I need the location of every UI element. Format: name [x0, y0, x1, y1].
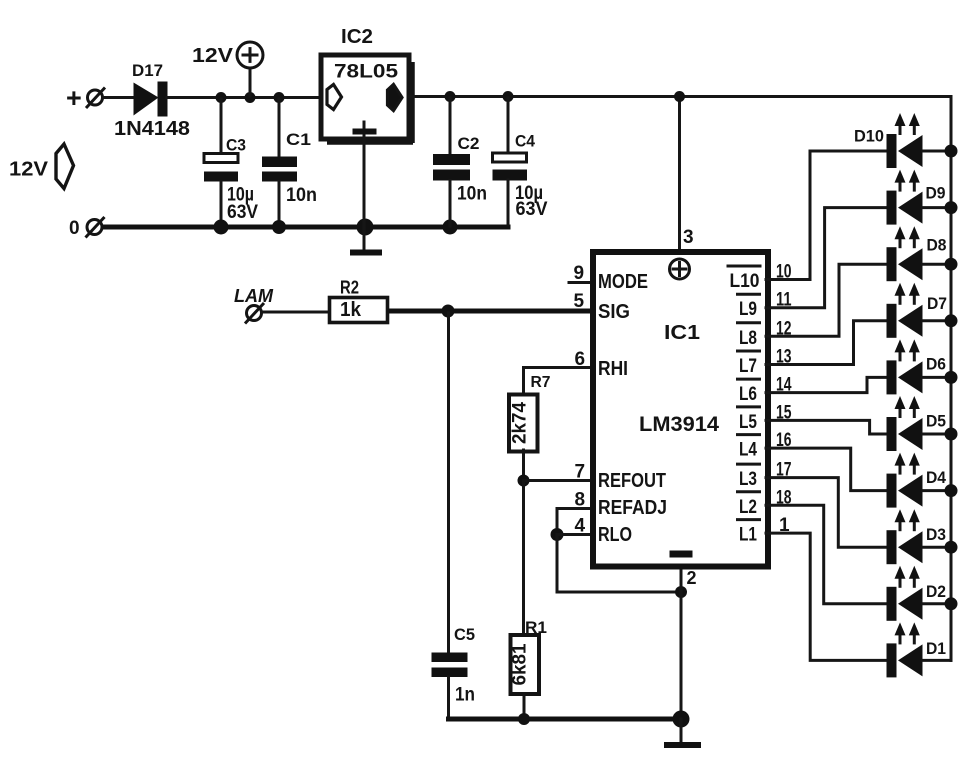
- wire pin 11 to LED D9 cathode: [766, 208, 887, 308]
- resistor R2: [330, 278, 388, 323]
- svg-text:L4: L4: [739, 440, 757, 461]
- node D8 junction on right rail: [945, 258, 958, 271]
- wire RLO pin 4: [557, 533, 594, 536]
- svg-text:L10: L10: [730, 271, 760, 292]
- wire REFOUT junction down to R1: [522, 481, 525, 635]
- wire LED D6 anode to right rail: [923, 376, 951, 379]
- svg-text:63V: 63V: [516, 199, 548, 220]
- wire pin 1 to LED D1 cathode: [766, 533, 887, 660]
- capacitor C4: [493, 91, 548, 225]
- node L8 label pin 12: [738, 323, 760, 349]
- node 0 input terminal: [69, 217, 105, 239]
- svg-text:D2: D2: [926, 582, 946, 601]
- svg-text:D5: D5: [926, 412, 946, 431]
- LED D2: [887, 566, 947, 621]
- svg-text:SIG: SIG: [598, 301, 630, 323]
- node + input terminal: [66, 83, 105, 113]
- ground symbol below 0V rail at IC2: [350, 227, 382, 256]
- node L3 label pin 17: [738, 464, 760, 490]
- svg-text:1N4148: 1N4148: [114, 118, 190, 140]
- ground IC2 (inside bar and stub to 0V rail): [353, 122, 377, 226]
- svg-text:2k74: 2k74: [510, 402, 531, 444]
- svg-text:10n: 10n: [286, 185, 317, 206]
- wire LED D10 anode to right rail: [923, 150, 951, 153]
- svg-text:REFOUT: REFOUT: [598, 470, 666, 492]
- node LAM input terminal: [234, 286, 274, 324]
- svg-text:R1: R1: [525, 618, 547, 637]
- wire LED D5 anode to right rail: [923, 433, 951, 436]
- IC1 left pin labels: [598, 271, 667, 546]
- svg-text:L9: L9: [739, 299, 757, 320]
- 12V supply symbol: [192, 42, 263, 68]
- node L7 label pin 13: [738, 351, 760, 377]
- svg-text:R2: R2: [340, 278, 359, 298]
- svg-text:6: 6: [575, 349, 586, 370]
- wire 0V rail: [103, 225, 508, 230]
- svg-text:5: 5: [574, 291, 585, 312]
- node L6 label pin 14: [738, 379, 760, 405]
- node D6 junction on right rail: [945, 371, 958, 384]
- wire pin 16 to LED D4 cathode: [766, 448, 887, 491]
- node L1 label pin 1: [738, 520, 760, 546]
- svg-text:D10: D10: [854, 127, 884, 146]
- resistor R7: [509, 374, 551, 452]
- svg-text:D7: D7: [927, 294, 947, 313]
- svg-text:D4: D4: [926, 468, 946, 487]
- wire D17 to IC2 (top rail left): [167, 96, 321, 99]
- svg-text:10n: 10n: [457, 184, 487, 205]
- svg-text:D17: D17: [132, 62, 163, 80]
- wire REFOUT pin 7: [524, 479, 595, 482]
- capacitor C1: [262, 99, 317, 226]
- svg-text:L6: L6: [739, 384, 757, 405]
- LED D4: [887, 453, 947, 508]
- LED D10: [854, 113, 923, 168]
- node L2 label pin 18: [738, 492, 760, 518]
- svg-text:0: 0: [69, 218, 80, 239]
- node C1 junction on 0V rail: [272, 220, 286, 234]
- svg-text:D3: D3: [926, 525, 946, 544]
- wire R2 to SIG pin 5 (thick signal wire): [390, 309, 594, 314]
- svg-text:LM3914: LM3914: [639, 412, 719, 436]
- svg-text:C3: C3: [226, 136, 246, 155]
- wire bottom ground rail: [449, 717, 682, 722]
- svg-text:IC1: IC1: [664, 322, 700, 344]
- node L9 label pin 11: [738, 294, 760, 320]
- svg-text:7: 7: [575, 462, 586, 483]
- wire LAM to R2: [262, 311, 328, 314]
- node REFOUT junction: [518, 475, 530, 487]
- svg-text:D9: D9: [926, 184, 946, 203]
- node C1 junction on +12V rail: [274, 92, 285, 103]
- wire pin 10 to LED D10 cathode: [766, 151, 887, 280]
- resistor R1: [510, 618, 548, 694]
- svg-text:LAM: LAM: [234, 286, 274, 306]
- node IC2 ground junction on 0V rail: [357, 219, 374, 236]
- wire junction down to C5: [447, 313, 450, 652]
- 12V input arrow label: [9, 144, 74, 189]
- node D5 junction on right rail: [945, 428, 958, 441]
- capacitor C3: [204, 99, 258, 226]
- capacitor C2: [433, 91, 487, 226]
- LED D7: [887, 283, 948, 338]
- wire pin 18 to LED D2 cathode: [766, 505, 887, 604]
- wire MODE pin 9 stub: [569, 281, 594, 284]
- LED D3: [887, 509, 947, 564]
- diode D17: [114, 62, 190, 140]
- node L5 label pin 15: [738, 407, 760, 433]
- LED D8: [887, 226, 947, 281]
- wire LED D9 anode to right rail: [923, 206, 951, 209]
- svg-text:1n: 1n: [455, 685, 475, 706]
- wire LED D7 anode to right rail: [923, 319, 951, 322]
- svg-text:3: 3: [683, 227, 694, 248]
- wire pin 13 to LED D7 cathode: [766, 321, 887, 365]
- svg-text:RHI: RHI: [598, 358, 628, 380]
- svg-text:6k81: 6k81: [510, 643, 531, 685]
- wire pin 12 to LED D8 cathode: [766, 264, 887, 336]
- svg-text:+: +: [66, 83, 82, 113]
- wire LED D8 anode to right rail: [923, 263, 951, 266]
- wire pin 2 down to ground: [680, 567, 683, 719]
- svg-text:C4: C4: [515, 132, 535, 151]
- node bottom rail / ground junction: [673, 711, 690, 728]
- node D2 junction on right rail: [945, 597, 958, 610]
- svg-text:78L05: 78L05: [334, 61, 398, 83]
- svg-text:9: 9: [574, 263, 585, 284]
- node D4 junction on right rail: [945, 484, 958, 497]
- voltage regulator IC2 78L05: [321, 26, 413, 143]
- wire LED D3 anode to right rail: [923, 546, 951, 549]
- wire RLO down and right to pin 2 node: [557, 535, 681, 593]
- node D10 junction on right rail: [945, 145, 958, 158]
- svg-text:D1: D1: [926, 639, 946, 658]
- node L4 label pin 16: [738, 435, 760, 461]
- svg-text:L7: L7: [739, 356, 757, 377]
- svg-text:REFADJ: REFADJ: [598, 497, 667, 519]
- LED D1: [887, 622, 947, 677]
- svg-text:D8: D8: [927, 236, 947, 255]
- wire right +12V rail: [950, 97, 953, 661]
- svg-text:12V: 12V: [192, 45, 234, 67]
- wire pin 14 to LED D6 cathode: [766, 377, 887, 392]
- node C2 junction on 0V rail: [443, 220, 458, 235]
- node RLO junction: [551, 528, 564, 541]
- wire R1 to bottom rail: [523, 694, 526, 720]
- capacitor C5: [432, 625, 476, 719]
- node 12V supply junction: [245, 92, 256, 103]
- svg-text:MODE: MODE: [598, 271, 648, 293]
- wire 12V supply stub: [249, 69, 252, 97]
- svg-text:D6: D6: [926, 355, 946, 374]
- svg-text:RLO: RLO: [598, 524, 632, 546]
- node D9 junction on right rail: [945, 201, 958, 214]
- svg-text:12V: 12V: [9, 159, 49, 181]
- svg-text:63V: 63V: [227, 202, 258, 223]
- wire pin 17 to LED D3 cathode: [766, 478, 887, 548]
- svg-text:8: 8: [575, 490, 586, 511]
- wire RHI pin 6 to R7: [524, 368, 595, 395]
- svg-text:L1: L1: [739, 525, 757, 546]
- op-amp U1 / IC1 LM3914 box: [593, 252, 768, 567]
- svg-text:2: 2: [687, 568, 697, 588]
- node pin 2 junction: [675, 586, 687, 598]
- wire pin 3 from +12V rail to IC1: [678, 97, 681, 253]
- svg-text:4: 4: [575, 516, 586, 537]
- ground bar inside IC1 bottom: [670, 551, 693, 558]
- svg-text:L3: L3: [739, 469, 757, 490]
- power symbol circled plus inside IC1: [670, 259, 690, 279]
- node C5 junction on signal wire: [442, 305, 455, 318]
- node L10 label pin 10: [728, 266, 760, 292]
- wire + terminal to D17: [103, 96, 134, 99]
- LED D5: [887, 396, 947, 451]
- IC1 left pin numbers: [574, 263, 586, 537]
- wire R7 to REFOUT junction: [522, 450, 525, 481]
- node pin 3 junction on +12V rail: [674, 91, 685, 102]
- wire LED D4 anode to right rail: [923, 489, 951, 492]
- wire LED D2 anode to right rail: [923, 602, 951, 605]
- svg-text:C1: C1: [286, 130, 311, 149]
- node C3 junction on +12V rail: [216, 92, 227, 103]
- wire +12V rail from IC2 output to right rail: [409, 95, 951, 98]
- svg-text:R7: R7: [531, 374, 551, 391]
- wire REFADJ pin 8 to RLO: [557, 509, 594, 535]
- svg-text:L2: L2: [739, 497, 757, 518]
- svg-text:1k: 1k: [340, 299, 362, 321]
- LED D9: [887, 170, 946, 225]
- node D3 junction on right rail: [945, 541, 958, 554]
- svg-text:L8: L8: [739, 328, 757, 349]
- node R1 junction on bottom rail: [518, 713, 530, 725]
- node D7 junction on right rail: [945, 314, 958, 327]
- LED D6: [887, 339, 947, 394]
- svg-text:C5: C5: [454, 625, 475, 644]
- svg-text:L5: L5: [739, 412, 757, 433]
- wire LED D1 anode to right rail: [923, 659, 951, 662]
- svg-text:C2: C2: [458, 134, 480, 153]
- ground symbol bottom: [664, 719, 701, 748]
- node C3 junction on 0V rail: [214, 220, 229, 235]
- wire pin 15 to LED D5 cathode: [766, 420, 887, 434]
- svg-text:IC2: IC2: [341, 26, 373, 48]
